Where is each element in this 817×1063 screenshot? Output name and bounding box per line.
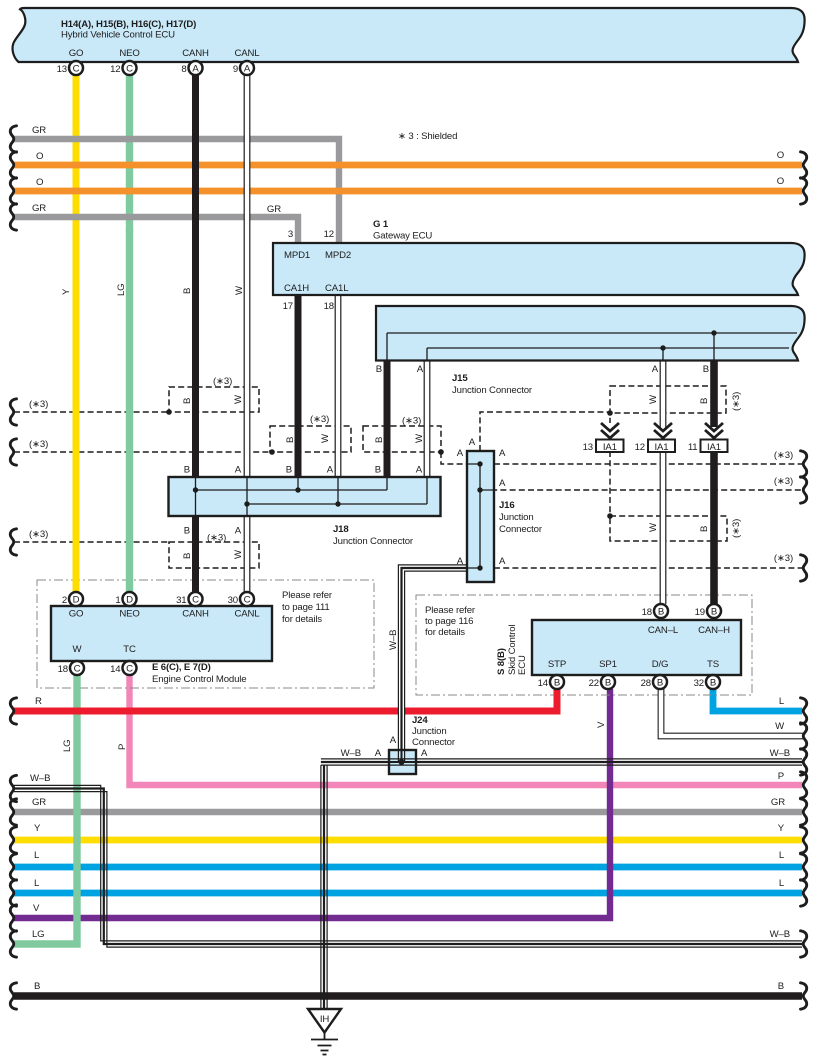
svg-text:A: A	[469, 437, 476, 448]
wire B black bottom	[14, 992, 802, 999]
svg-text:GR: GR	[267, 204, 281, 215]
pin circles ECM top	[62, 592, 254, 606]
svg-text:A: A	[652, 364, 659, 375]
svg-text:31: 31	[176, 595, 186, 606]
svg-text:E 6(C), E 7(D): E 6(C), E 7(D)	[152, 662, 211, 673]
wire W white J15 to J18	[424, 361, 431, 477]
shield dashed line left 2	[14, 451, 272, 453]
wire W white CA1L G1 to J18	[335, 295, 342, 477]
svg-text:Engine Control Module: Engine Control Module	[152, 674, 246, 685]
svg-text:A: A	[457, 448, 464, 459]
Skid Control ECU S8(B) box	[532, 620, 741, 675]
Junction Connector J24 box	[389, 750, 416, 774]
svg-text:8: 8	[181, 64, 186, 75]
svg-text:W: W	[648, 394, 659, 404]
svg-text:IA1: IA1	[707, 442, 721, 453]
svg-text:W–B: W–B	[388, 630, 399, 650]
svg-text:A: A	[416, 465, 423, 476]
shield dashed line left 1	[14, 411, 169, 413]
svg-text:W: W	[233, 549, 244, 559]
svg-text:W: W	[320, 433, 331, 443]
svg-text:B: B	[374, 437, 385, 443]
refer box dash-dot ECM	[37, 580, 374, 688]
svg-text:D/G: D/G	[652, 659, 669, 670]
svg-text:A: A	[375, 748, 382, 759]
svg-text:A: A	[417, 364, 424, 375]
svg-text:D: D	[73, 595, 80, 606]
Gateway ECU G1 box	[273, 243, 805, 295]
wire W white skid pin28 to right	[661, 689, 803, 736]
svg-text:B: B	[182, 288, 193, 294]
svg-text:P: P	[117, 744, 128, 750]
Engine Control Module E6/E7 box	[51, 606, 272, 661]
svg-text:18: 18	[58, 664, 68, 675]
svg-text:TS: TS	[707, 659, 719, 670]
svg-text:GR: GR	[32, 125, 46, 136]
svg-text:14: 14	[538, 678, 549, 689]
svg-text:Please refer: Please refer	[282, 590, 333, 601]
svg-text:14: 14	[110, 664, 121, 675]
junction dots on shield lines	[166, 409, 613, 519]
LAYER 3: top horizontal wires	[14, 139, 802, 243]
wire B black J15 to J18	[384, 361, 391, 477]
svg-text:A: A	[192, 64, 199, 75]
svg-text:B: B	[778, 981, 784, 992]
svg-text:B: B	[699, 526, 710, 532]
svg-text:GR: GR	[32, 797, 46, 808]
svg-text:LG: LG	[32, 929, 45, 940]
svg-text:Junction: Junction	[499, 512, 534, 523]
svg-text:A: A	[390, 735, 397, 746]
LAYER 2: bottom horizontal wires	[14, 675, 802, 996]
svg-text:W: W	[648, 522, 659, 532]
svg-text:17: 17	[283, 301, 293, 312]
wire LG green NEO vertical	[126, 230, 133, 592]
svg-text:CANL: CANL	[235, 48, 261, 59]
svg-text:(∗3): (∗3)	[774, 553, 793, 564]
svg-text:B: B	[376, 364, 382, 375]
svg-text:12: 12	[110, 64, 120, 75]
wire W-B J16 to J24 underlay	[402, 568, 480, 765]
wire O orange 2	[14, 188, 802, 195]
connector IA1 pin 12	[648, 440, 675, 453]
svg-text:3: 3	[288, 229, 293, 240]
svg-text:B: B	[182, 553, 193, 559]
svg-text:(∗3): (∗3)	[207, 533, 226, 544]
svg-text:V: V	[596, 721, 607, 728]
shield box B/W below J18	[169, 542, 259, 568]
wire L blue bottom 1	[14, 864, 802, 871]
svg-text:CANH: CANH	[182, 48, 209, 59]
svg-text:B: B	[375, 465, 381, 476]
svg-text:W–B: W–B	[770, 929, 790, 940]
svg-text:Y: Y	[34, 823, 41, 834]
svg-text:(∗3): (∗3)	[731, 519, 742, 538]
J18 bus junction dots	[193, 487, 341, 506]
Junction Connector J18 box	[169, 477, 441, 516]
wire W white J15 to IA1-12	[660, 361, 667, 429]
svg-text:for details: for details	[425, 627, 465, 638]
wire B black J15 to IA1-11	[710, 361, 718, 427]
shield box B/W above IA1	[610, 386, 726, 413]
Junction Connector J16 box	[467, 451, 494, 582]
ECU H14/H15/H16/H17 Hybrid Vehicle Control ECU box	[13, 8, 805, 62]
J16 bus junction dots	[477, 461, 482, 570]
svg-text:CAN–H: CAN–H	[698, 625, 730, 636]
svg-text:NEO: NEO	[119, 48, 139, 59]
svg-text:O: O	[36, 151, 43, 162]
svg-text:18: 18	[324, 301, 334, 312]
svg-text:B: B	[605, 678, 611, 689]
svg-text:(∗3): (∗3)	[731, 392, 742, 411]
svg-text:R: R	[35, 696, 42, 707]
svg-text:B: B	[711, 607, 717, 618]
pin circles HV ECU	[57, 61, 254, 75]
svg-text:W: W	[73, 644, 83, 655]
wire W-B left-bottom stripe	[14, 789, 802, 945]
refer box dash-dot skid	[416, 595, 752, 695]
svg-text:B: B	[657, 678, 663, 689]
svg-text:C: C	[244, 595, 251, 606]
svg-text:L: L	[779, 850, 785, 861]
wire W-B ground vertical underlay	[321, 762, 327, 1009]
svg-text:Connector: Connector	[499, 524, 543, 535]
shield dashed line left 3	[14, 541, 169, 543]
svg-text:CA1L: CA1L	[325, 283, 349, 294]
wire LG green W pin18 to bottom left	[14, 675, 77, 944]
shield dashed line right 1 from J16	[494, 463, 803, 465]
svg-text:(∗3): (∗3)	[29, 399, 48, 410]
connector IA1 pin 11	[701, 440, 728, 453]
svg-text:(∗3): (∗3)	[29, 439, 48, 450]
svg-text:W–B: W–B	[30, 773, 50, 784]
wire B black IA1-11 to skid pin19	[710, 451, 718, 604]
svg-text:W–B: W–B	[770, 748, 790, 759]
wire W white CANL vertical lower	[244, 516, 251, 592]
svg-text:A: A	[499, 478, 506, 489]
shield link rect3 corner to J16	[441, 452, 467, 464]
svg-text:11: 11	[688, 442, 698, 453]
svg-text:B: B	[184, 526, 190, 537]
svg-text:P: P	[778, 771, 784, 782]
svg-text:B: B	[184, 465, 190, 476]
wire W-B junction J24 horizontal underlay	[321, 759, 802, 765]
svg-text:A: A	[499, 448, 506, 459]
svg-text:IA1: IA1	[603, 442, 617, 453]
wire GR gray top 2 to MPD1	[14, 217, 298, 243]
wire B black CANH vertical lower	[192, 516, 199, 592]
svg-text:CA1H: CA1H	[284, 283, 309, 294]
svg-text:Y: Y	[61, 288, 72, 295]
wire W-B left-bottom underlay	[14, 789, 802, 945]
svg-text:J16: J16	[499, 500, 515, 511]
svg-text:C: C	[126, 64, 133, 75]
svg-text:MPD2: MPD2	[325, 250, 351, 261]
wire W white CANL vertical upper	[244, 75, 251, 477]
svg-text:STP: STP	[548, 659, 566, 670]
wire GR gray top 1 to MPD2	[14, 139, 339, 243]
svg-text:1: 1	[115, 595, 120, 606]
pin circles skid bottom	[538, 675, 720, 689]
svg-text:L: L	[34, 878, 40, 889]
svg-text:W: W	[775, 721, 785, 732]
svg-text:(∗3): (∗3)	[402, 416, 421, 427]
svg-text:Gateway ECU: Gateway ECU	[373, 231, 432, 242]
wire B black CA1H G1 to J18	[295, 295, 302, 477]
svg-text:12: 12	[324, 229, 334, 240]
wire GR gray bottom	[14, 809, 802, 815]
svg-text:13: 13	[583, 442, 593, 453]
svg-text:to page 111: to page 111	[282, 602, 330, 613]
wire L blue TS to right	[713, 689, 802, 711]
svg-text:A: A	[235, 465, 242, 476]
svg-text:B: B	[182, 398, 193, 404]
wire L blue bottom 2	[14, 890, 802, 897]
shield dashed line right 2 from J16	[482, 489, 803, 491]
LAYER 7: dashed shield lines and refer boxes	[14, 386, 803, 695]
svg-text:B: B	[658, 607, 664, 618]
svg-text:Y: Y	[778, 823, 785, 834]
shield box B/W over J18 left pair	[169, 387, 259, 412]
wire V violet SP1 to left	[14, 689, 610, 918]
svg-text:GR: GR	[771, 797, 785, 808]
svg-text:(∗3): (∗3)	[310, 414, 329, 425]
wire O orange 1	[14, 162, 802, 169]
svg-text:LG: LG	[62, 740, 73, 753]
svg-text:19: 19	[695, 607, 705, 618]
svg-text:GO: GO	[69, 609, 84, 620]
svg-text:CAN–L: CAN–L	[648, 625, 679, 636]
svg-text:MPD1: MPD1	[284, 250, 310, 261]
svg-text:L: L	[779, 878, 785, 889]
J15 bus junction dots	[711, 330, 716, 335]
svg-text:D: D	[126, 595, 133, 606]
svg-text:B: B	[554, 678, 560, 689]
svg-text:A: A	[235, 526, 242, 537]
svg-text:(∗3): (∗3)	[213, 376, 232, 387]
svg-text:L: L	[34, 850, 40, 861]
LAYER 5: red wire	[14, 689, 557, 711]
svg-text:9: 9	[233, 64, 238, 75]
svg-text:B: B	[285, 437, 296, 443]
pin circles skid top	[642, 604, 721, 618]
wire LG green NEO vertical upper	[126, 75, 133, 232]
svg-text:C: C	[74, 664, 81, 675]
shield dashed line right 3 from J16	[494, 567, 803, 569]
svg-text:32: 32	[694, 678, 704, 689]
wire W-B left-bottom edges	[14, 785, 802, 947]
svg-text:B: B	[286, 465, 292, 476]
J16 internal bus	[479, 464, 481, 568]
svg-text:Hybrid Vehicle Control ECU: Hybrid Vehicle Control ECU	[61, 30, 175, 41]
shield box B/W below IA1	[610, 516, 727, 541]
svg-text:W: W	[414, 433, 425, 443]
svg-text:C: C	[126, 664, 133, 675]
svg-text:B: B	[710, 678, 716, 689]
svg-text:W: W	[233, 394, 244, 404]
svg-text:GO: GO	[69, 48, 84, 59]
wire W-B junction J24 horizontal stripe	[321, 761, 802, 763]
Junction Connector J15 box	[376, 306, 805, 361]
svg-text:A: A	[244, 64, 251, 75]
svg-text:B: B	[34, 981, 40, 992]
ground IH	[308, 1009, 341, 1055]
svg-text:(∗3): (∗3)	[774, 450, 793, 461]
J18 internal bus	[196, 478, 428, 515]
svg-text:A: A	[327, 465, 334, 476]
shield drain chevron 12	[654, 423, 672, 438]
svg-text:∗ 3 : Shielded: ∗ 3 : Shielded	[398, 131, 457, 142]
svg-text:A: A	[457, 556, 464, 567]
svg-text:W–B: W–B	[341, 748, 361, 759]
wire W-B ground vertical edges	[321, 765, 327, 1009]
svg-text:for details: for details	[282, 614, 322, 625]
svg-text:B: B	[699, 398, 710, 404]
svg-text:CANH: CANH	[182, 609, 209, 620]
svg-text:A: A	[499, 556, 506, 567]
svg-text:O: O	[777, 150, 784, 161]
svg-text:ECU: ECU	[517, 655, 528, 675]
connector IA1 pin 13	[596, 440, 624, 453]
svg-text:L: L	[779, 696, 785, 707]
wire P pink TC to right	[130, 675, 803, 785]
svg-text:Connector: Connector	[412, 737, 456, 748]
svg-text:GR: GR	[32, 203, 46, 214]
svg-text:28: 28	[641, 678, 651, 689]
wire Y yellow bottom	[14, 837, 802, 844]
svg-text:O: O	[36, 177, 43, 188]
wire W-B J16 to J24 stripe	[402, 568, 480, 765]
svg-text:V: V	[33, 903, 40, 914]
LAYER 1: white underlays of W-B striped wires	[14, 568, 802, 1009]
svg-text:Junction Connector: Junction Connector	[333, 536, 414, 547]
svg-text:Junction: Junction	[412, 726, 447, 737]
svg-text:(∗3): (∗3)	[29, 529, 48, 540]
svg-text:TC: TC	[123, 644, 136, 655]
wire W-B J16 to J24 white fill (over red)	[402, 568, 480, 765]
svg-text:J15: J15	[452, 373, 468, 384]
wire Y yellow GO vertical	[73, 230, 80, 592]
squiggles right	[801, 152, 807, 1009]
svg-text:J18: J18	[333, 524, 349, 535]
svg-text:LG: LG	[116, 284, 127, 297]
svg-text:13: 13	[57, 64, 67, 75]
svg-text:22: 22	[589, 678, 599, 689]
svg-text:O: O	[777, 176, 784, 187]
shield box B/W J15 left pair	[363, 426, 441, 452]
svg-text:12: 12	[635, 442, 645, 453]
svg-text:CANL: CANL	[235, 609, 261, 620]
svg-text:B: B	[703, 364, 709, 375]
svg-text:C: C	[192, 595, 199, 606]
pin circles ECM bottom	[58, 661, 137, 675]
LAYER 4: vertical wires	[14, 75, 803, 944]
svg-text:18: 18	[642, 607, 652, 618]
J15 internal bus lines	[387, 333, 797, 360]
svg-text:(∗3): (∗3)	[774, 476, 793, 487]
svg-text:H14(A), H15(B), H16(C), H17(D): H14(A), H15(B), H16(C), H17(D)	[61, 19, 196, 30]
svg-text:30: 30	[228, 595, 238, 606]
shield box B/W G1 pair	[270, 426, 351, 452]
svg-text:to page 116: to page 116	[425, 616, 473, 627]
squiggles left	[10, 126, 16, 1009]
wire W-B J16 to J24 edges	[398, 565, 479, 765]
shield drain chevron 11	[705, 423, 723, 438]
shield dashed link IA1-13 down	[609, 451, 611, 516]
svg-text:IA1: IA1	[655, 442, 669, 453]
svg-text:Please refer: Please refer	[425, 605, 476, 616]
shield drain chevron 13	[601, 423, 619, 438]
svg-text:J24: J24	[412, 715, 428, 726]
svg-text:NEO: NEO	[119, 609, 139, 620]
svg-text:Junction Connector: Junction Connector	[452, 385, 533, 396]
svg-text:C: C	[73, 64, 80, 75]
svg-text:W: W	[234, 285, 245, 295]
LAYER 6: W-B striped wire outlines (edges + center stripe, no fill)	[14, 565, 802, 1009]
svg-text:A: A	[421, 748, 428, 759]
wire B black CANH vertical upper	[192, 75, 199, 477]
wire W white IA1-12 to skid pin18	[660, 451, 667, 604]
wire W-B ground vertical stripe	[323, 765, 325, 1009]
wire R red STP to left	[14, 689, 557, 711]
svg-text:SP1: SP1	[599, 659, 617, 670]
svg-text:IH: IH	[320, 1014, 330, 1025]
wire W-B junction J24 horizontal edges	[321, 759, 802, 765]
svg-text:2: 2	[62, 595, 67, 606]
svg-text:S 8(B): S 8(B)	[496, 648, 507, 675]
wire Y yellow GO vertical upper	[73, 75, 80, 232]
shield link J16 pin A top to IA1-13	[480, 412, 610, 451]
LAYER 2b: upper segments of GO/NEO verticals (under top horizontals)	[76, 75, 130, 232]
svg-text:G 1: G 1	[373, 219, 389, 230]
